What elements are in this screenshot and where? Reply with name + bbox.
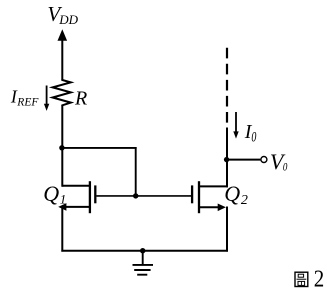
current I0 arrow [235,112,237,133]
wire ground rail [61,250,228,252]
wire feedback vertical down to gate line [135,147,137,197]
transistor Q2 [192,181,228,213]
wire to V0 terminal [227,159,260,161]
wire shared gate line Q1-Q2 [97,195,192,197]
svg-text:R: R [74,87,87,109]
dashed branch above Q2 drain [226,48,228,123]
svg-text:Q: Q [43,181,59,206]
terminal circle V0 [261,157,267,163]
svg-text:2: 2 [314,266,325,293]
wire resistor bottom to Q1 drain [61,106,63,187]
svg-text:0: 0 [283,160,288,174]
caption figure character (圖) [295,272,308,286]
junction dot node A (drain-gate feedback tap) [59,145,64,150]
current IREF arrow [46,86,48,106]
resistor R [53,80,71,107]
ground [133,251,154,275]
junction dot V0 tap [224,157,229,162]
wire Q2 drain up [226,128,228,188]
transistor Q1 [58,181,95,213]
svg-text:1: 1 [60,191,66,206]
svg-text:DD: DD [58,12,78,27]
svg-text:0: 0 [251,130,257,146]
power VDD arrow [58,29,68,41]
svg-text:2: 2 [241,193,248,208]
wire feedback horizontal [61,147,136,149]
wire Q1 source down to ground rail [61,206,63,252]
junction dot ground tap [140,248,145,253]
svg-text:REF: REF [16,97,39,109]
junction dot on gate line [133,193,138,198]
wire Q2 source down to ground rail [226,207,228,252]
